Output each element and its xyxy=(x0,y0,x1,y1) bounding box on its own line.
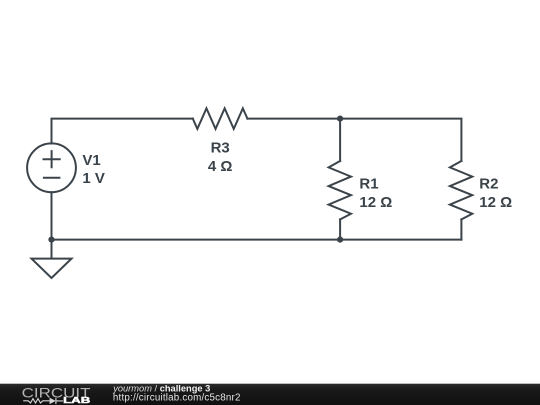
junction dot (bottom, R1) xyxy=(337,237,343,243)
CircuitLab logo: diode triangle xyxy=(50,398,56,404)
CircuitLab logo: resistor-diode glyph xyxy=(23,398,63,404)
svg-text:LAB: LAB xyxy=(63,396,91,405)
wire: V1 bottom to bottom net xyxy=(51,192,53,239)
svg-text:http://circuitlab.com/c5c8nr2: http://circuitlab.com/c5c8nr2 xyxy=(113,392,241,403)
svg-text:R1: R1 xyxy=(359,175,378,192)
wire: bottom net xyxy=(52,239,462,241)
svg-text:1 V: 1 V xyxy=(82,170,105,187)
wire: node A down to R1 top xyxy=(339,119,341,161)
svg-text:12 Ω: 12 Ω xyxy=(359,194,392,211)
wire: R3 right to top-right corner down to R2 top xyxy=(247,119,461,161)
svg-text:4 Ω: 4 Ω xyxy=(208,158,233,175)
resistor R2 xyxy=(450,161,472,219)
svg-text:V1: V1 xyxy=(82,152,100,169)
resistor R1 xyxy=(329,161,351,219)
node A junction dot (top) xyxy=(337,116,343,122)
V1 plus sign xyxy=(44,151,60,167)
wire: R1 bottom to bottom wire xyxy=(339,219,341,239)
ground xyxy=(32,240,72,278)
voltage source V1 xyxy=(27,143,76,192)
wire: V1 top to top-left corner to R3 left xyxy=(52,119,193,144)
svg-text:R3: R3 xyxy=(211,139,230,156)
V1 minus sign xyxy=(44,177,60,179)
wire: R2 bottom to bottom-right corner xyxy=(460,219,462,239)
junction dot (bottom-left, ground) xyxy=(48,237,54,243)
svg-text:12 Ω: 12 Ω xyxy=(479,194,512,211)
svg-text:R2: R2 xyxy=(479,175,498,192)
resistor R3 xyxy=(193,108,248,129)
